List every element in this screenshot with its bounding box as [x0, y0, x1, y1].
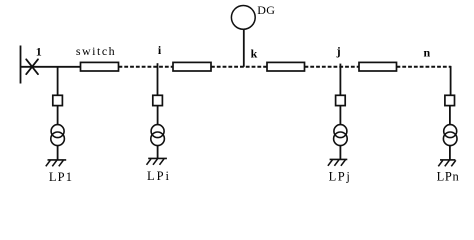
ground LPn — [438, 160, 456, 166]
wire LP1 box to transformer — [57, 106, 59, 125]
line section box (switch) — [81, 62, 119, 71]
svg-text:switch: switch — [76, 44, 116, 58]
breaker X at node 1 — [26, 59, 38, 74]
wire corner down at node n — [450, 66, 452, 96]
wire (dashed) box2 to box3 through node k — [211, 66, 267, 68]
bus bar (source) — [20, 46, 22, 84]
line section box 4 — [359, 62, 397, 71]
svg-text:LP1: LP1 — [49, 170, 73, 184]
wire (dashed) box3 to box4 through node j — [305, 66, 360, 68]
transformer LPj — [334, 125, 348, 146]
svg-text:n: n — [424, 46, 431, 60]
transformer LPn — [443, 125, 457, 146]
wire LPi transformer to ground — [157, 146, 159, 159]
fuse box LPi — [153, 95, 163, 105]
fuse box LP1 — [53, 95, 63, 105]
wire (dashed) box4 to node n corner — [397, 66, 451, 68]
tap wire node 1 to LP1 — [57, 67, 59, 96]
transformer LP1 — [51, 125, 65, 146]
fuse box LPj — [336, 95, 346, 105]
transformer LPi — [151, 125, 165, 146]
wire LPj box to transformer — [339, 106, 341, 125]
svg-text:DG: DG — [257, 3, 275, 17]
wire LPi box to transformer — [157, 106, 159, 125]
line section box 2 — [173, 62, 211, 71]
wire (dashed) switch to box2 through node i — [119, 66, 174, 68]
DG generator circle — [231, 6, 255, 30]
svg-text:LPj: LPj — [329, 170, 352, 184]
wire DG to node k — [243, 29, 245, 66]
ground LPj — [328, 159, 347, 165]
wire LPn box to transformer — [449, 106, 451, 125]
svg-text:1: 1 — [36, 45, 42, 59]
line section box 3 — [267, 62, 305, 71]
fuse box LPn — [445, 95, 455, 105]
ground LP1 — [46, 160, 66, 166]
node i tick and tap wire — [157, 63, 159, 96]
wire LPn transformer to ground — [449, 146, 451, 160]
svg-text:k: k — [251, 47, 258, 61]
wire LP1 transformer to ground — [57, 146, 59, 160]
ground LPi — [147, 158, 167, 164]
svg-text:LPn: LPn — [437, 170, 460, 184]
wire LPj transformer to ground — [339, 146, 341, 160]
node j tick and tap wire — [339, 64, 341, 96]
svg-text:j: j — [336, 44, 341, 58]
svg-text:LPi: LPi — [147, 169, 171, 183]
wire bus to switch box — [21, 66, 81, 68]
